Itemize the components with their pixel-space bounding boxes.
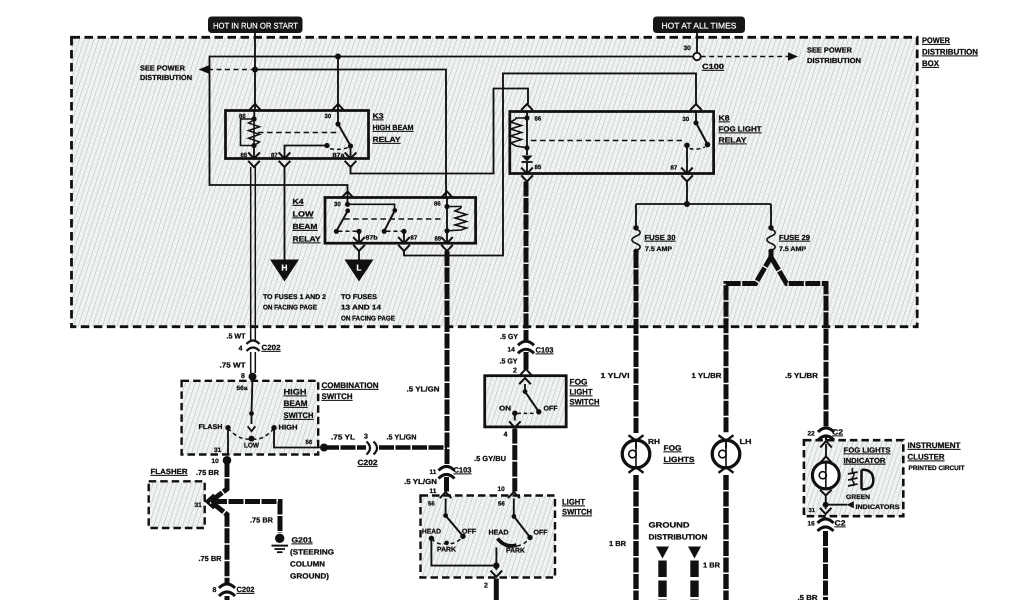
svg-text:85: 85 [435,236,442,243]
svg-text:3: 3 [364,434,368,441]
wire hot-in-run feed down to K3 86 [254,33,256,110]
K8 contact 87 [684,143,705,174]
svg-text:85: 85 [535,164,542,171]
svg-text:31: 31 [195,502,203,509]
svg-text:C2: C2 [835,519,846,528]
H arrow to fuses [263,260,326,312]
thick wire .5 BR below cluster [823,531,828,600]
K8 actuation dashed line [531,140,682,142]
svg-text:FLASHER: FLASHER [151,467,189,476]
svg-text:.75 YL: .75 YL [331,433,356,442]
fog indicator icon [848,468,873,489]
junction dot [252,67,258,73]
terminal 31 junction [823,502,829,508]
svg-text:56: 56 [306,439,313,446]
thick wire fuse 29 split left to LH fog light [726,253,771,433]
svg-text:K4: K4 [293,197,305,206]
svg-text:87: 87 [271,152,278,159]
svg-text:13 AND 14: 13 AND 14 [341,304,381,311]
ground stub right [688,547,701,600]
light switch left wiper [443,499,465,540]
light switch exit arrow [491,571,503,577]
svg-text:OFF: OFF [534,530,548,537]
hollow wire .5 WT from K3 85 [251,167,256,373]
svg-text:LH: LH [740,437,752,446]
connector C103 (YL/GN) [439,467,455,479]
svg-text:INDICATOR: INDICATOR [844,456,887,465]
combination switch box [182,381,319,455]
svg-text:INDICATORS: INDICATORS [856,504,901,511]
K3 actuation dashed line [258,132,340,134]
svg-text:POWER: POWER [922,36,950,45]
svg-text:C2: C2 [832,428,843,437]
light switch left HEAD contact [422,529,494,566]
combination switch title [322,381,379,401]
thick wire .75 YL to C202 [324,445,366,450]
wire K4 87 to K8 30 [404,73,696,255]
terminal 56a dot [249,373,257,381]
svg-text:2: 2 [484,583,488,590]
wire C2 to cluster box [825,438,827,442]
svg-text:56: 56 [498,501,505,508]
svg-text:FOG LIGHT: FOG LIGHT [719,125,762,134]
wiper arrow [248,426,256,431]
svg-text:.75 BR: .75 BR [199,554,223,563]
svg-text:C202: C202 [262,343,281,352]
svg-text:4: 4 [239,346,243,353]
svg-text:30: 30 [683,116,690,123]
svg-text:7.5 AMP: 7.5 AMP [645,246,673,253]
light switch left entry [440,492,452,498]
svg-text:OFF: OFF [462,529,476,536]
K4 contact 87 [382,229,407,243]
wire down to K3 30 [337,57,339,111]
thick wire 1 BR below RH lamp [633,475,638,600]
K3 name [373,112,414,145]
K3 pin 86 entry [249,104,261,110]
svg-text:LIGHT: LIGHT [570,388,593,397]
left dashed arc with PARK [431,537,463,554]
RH fog light lamp [622,435,650,473]
below lamp chevron [820,490,832,505]
svg-text:1 BR: 1 BR [703,561,721,570]
svg-text:LOW: LOW [244,443,260,450]
svg-text:K8: K8 [719,114,730,123]
K4 switch arms [336,202,397,232]
svg-text:GROUND: GROUND [649,521,691,530]
svg-text:30: 30 [334,201,341,208]
svg-text:87: 87 [411,234,418,241]
fuse 29 [767,225,810,254]
indicator entry arrow [820,441,832,463]
thick wire C103 to fog switch [524,352,529,370]
thick wire K4 85 .5 YL/GN down [445,251,450,466]
ground G201 [272,534,289,553]
indicator lamp [812,462,839,489]
connector C100 [693,53,700,60]
svg-text:30: 30 [684,45,692,52]
svg-text:PARK: PARK [437,547,456,554]
svg-text:86: 86 [535,116,542,123]
K3 switch arm [335,111,350,146]
svg-text:ON FACING PAGE: ON FACING PAGE [263,304,317,311]
light switch title [562,498,592,517]
thick wire .5 GY/BU [512,429,517,492]
svg-text:C103: C103 [454,466,472,475]
fuse bus junction [684,201,690,207]
svg-text:.5 GY/BU: .5 GY/BU [474,454,506,463]
svg-text:31: 31 [809,507,816,514]
svg-text:C100: C100 [702,62,724,71]
K3 contact 87 [285,143,330,159]
svg-text:BEAM: BEAM [293,222,318,231]
svg-text:.5 GY: .5 GY [500,357,518,366]
fog lights label [664,444,695,465]
svg-text:PARK: PARK [506,548,525,555]
svg-text:COMBINATION: COMBINATION [322,381,379,390]
svg-text:.75 BR: .75 BR [196,468,220,477]
wire branch to K4 86 [255,70,446,198]
svg-text:.75 WT: .75 WT [220,361,247,370]
dashed arrow see power distribution (right) [701,46,861,66]
connector C2 (top) [818,428,834,440]
svg-text:C202: C202 [358,458,378,467]
thick wire below light switch [494,579,499,600]
svg-text:11: 11 [430,488,437,495]
thick wire fuse 29 split right to instrument cluster [771,257,826,428]
relay K8 box [510,112,714,174]
K8 switch arm [693,111,710,147]
relay K4 box [325,198,476,244]
svg-text:FUSE 30: FUSE 30 [645,233,676,242]
right park wiper thick arc [498,539,517,546]
dashed selector arc [228,428,274,439]
svg-text:FUSE 29: FUSE 29 [779,233,810,242]
svg-text:(STEERING: (STEERING [290,548,334,557]
svg-text:GROUND): GROUND) [290,572,330,581]
svg-text:INSTRUMENT: INSTRUMENT [908,441,961,450]
wire K4 87b to L arrow [358,251,360,260]
thick wire down from terminal 10 to flasher junction [211,462,228,583]
thick wire fuse 30 to RH fog light (1 YL/VI) [634,253,639,433]
svg-text:1 YL/VI: 1 YL/VI [601,371,630,380]
svg-text:86: 86 [434,201,441,208]
svg-text:RELAY: RELAY [719,136,747,145]
light switch right wiper [512,499,533,541]
svg-text:CLUSTER: CLUSTER [908,453,945,462]
bus wire from C100 to left, down, to K4 30 [210,57,694,198]
K4 contact 87b [334,229,362,243]
LOW contact [249,436,255,442]
svg-text:FOG LIGHTS: FOG LIGHTS [844,446,891,455]
K4 actuation dashed line [344,218,441,220]
right dashed arc [517,538,531,546]
svg-text:PRINTED CIRCUIT: PRINTED CIRCUIT [909,465,965,472]
svg-text:HEAD: HEAD [489,530,509,537]
K4 pin 86 entry [441,192,453,198]
light switch output junction [493,548,499,571]
svg-text:.5 WT: .5 WT [227,332,247,341]
svg-text:RELAY: RELAY [293,235,321,244]
connector C202 horizontal [367,442,378,455]
K3 coil [241,116,260,158]
svg-text:HIGH: HIGH [284,388,307,397]
FLASH contact [199,424,231,454]
flasher terminal 31 arrow [206,495,214,509]
svg-text:.5 YL/GN: .5 YL/GN [404,477,437,486]
K4 name [293,197,321,244]
fog lights indicator label [844,446,891,465]
svg-text:56: 56 [428,501,435,508]
svg-text:7.5 AMP: 7.5 AMP [779,246,807,253]
K8 name [719,114,762,145]
svg-text:87b: 87b [366,235,378,242]
svg-text:SWITCH: SWITCH [562,508,592,517]
K3 pin 30 entry [332,104,344,110]
ground distribution label [649,521,708,542]
svg-text:.5 GY: .5 GY [500,332,518,341]
svg-text:FOG: FOG [570,378,588,387]
K3 contact 87a [330,143,353,158]
svg-text:.5 YL/GN: .5 YL/GN [407,385,440,394]
switch wiper wire [249,377,254,424]
svg-text:TO FUSES 1 AND 2: TO FUSES 1 AND 2 [263,294,326,301]
svg-text:HOT IN RUN OR START: HOT IN RUN OR START [213,21,298,30]
HIGH contact [271,425,320,448]
fog switch exit arrow [509,421,521,427]
svg-text:FOG: FOG [664,444,682,453]
svg-text:RELAY: RELAY [373,135,401,144]
svg-text:FLASH: FLASH [199,424,223,431]
junction dot branch to K3 30 [335,54,341,60]
svg-text:31: 31 [214,447,222,454]
connector C202 [247,341,260,352]
svg-text:8: 8 [241,373,245,380]
svg-text:LIGHTS: LIGHTS [664,455,695,464]
wire stub below C202 [225,596,230,600]
wire K8 87 down to fuse bus [686,182,688,205]
flasher box [149,481,205,528]
svg-text:ON FACING PAGE: ON FACING PAGE [341,316,395,323]
fuse 30 [632,225,676,254]
K8 coil diode [522,148,533,174]
svg-text:16: 16 [808,521,816,528]
svg-text:1 BR: 1 BR [609,539,627,548]
svg-text:SWITCH: SWITCH [284,411,314,420]
thick wire C103 to light switch [444,477,449,492]
K8 coil [511,115,530,150]
label HOT AT ALL TIMES [653,17,745,34]
instrument cluster titles [908,441,965,472]
svg-text:COLUMN: COLUMN [290,560,325,569]
svg-text:DISTRIBUTION: DISTRIBUTION [140,73,192,82]
power distribution box title [922,36,978,68]
svg-text:87: 87 [671,165,678,172]
svg-text:HIGH BEAM: HIGH BEAM [373,123,414,132]
G201 label [290,536,334,581]
svg-text:SWITCH: SWITCH [322,392,353,401]
svg-text:56a: 56a [237,385,249,392]
instrument cluster box [804,440,903,516]
svg-text:10: 10 [212,458,220,465]
power distribution box [72,37,918,326]
svg-text:ON: ON [499,406,511,413]
svg-text:30: 30 [325,113,332,120]
svg-text:C103: C103 [536,346,554,355]
light switch right entry [508,492,520,498]
svg-text:22: 22 [808,431,816,438]
svg-text:HIGH: HIGH [279,425,298,432]
indicator exit arrow [820,508,832,515]
svg-text:.5 YL/GN: .5 YL/GN [387,433,417,442]
green indicators pointer [826,494,901,511]
svg-text:SEE POWER: SEE POWER [807,46,853,55]
high beam switch title [284,388,314,421]
wire K3 87a to K8 86 [351,89,529,174]
svg-text:C202: C202 [237,585,255,594]
fog switch ON contact [499,406,536,421]
ground stub left [656,547,669,600]
svg-text:OFF: OFF [544,406,558,413]
thick wire branch to G201 [212,502,280,534]
svg-text:HEAD: HEAD [422,529,441,536]
svg-text:GREEN: GREEN [846,494,870,501]
svg-text:1 YL/BR: 1 YL/BR [692,371,723,380]
fog light switch title [570,378,600,407]
svg-text:K3: K3 [373,112,384,121]
wire hot-at-all-times down to C100 [696,33,698,53]
svg-text:11: 11 [430,469,437,476]
K8 pin 30 entry [690,104,702,110]
svg-text:DISTRIBUTION: DISTRIBUTION [807,56,861,65]
svg-text:.5 BR: .5 BR [798,593,819,600]
svg-text:H: H [281,263,287,273]
svg-text:L: L [356,263,361,273]
svg-text:G201: G201 [292,536,313,545]
svg-text:RH: RH [648,437,660,446]
fuse bus wire [636,204,771,226]
fog switch wiper [519,378,541,414]
relay K3 box [226,111,369,159]
svg-text:10: 10 [498,486,506,493]
svg-text:2: 2 [513,368,517,375]
fog light switch box [485,376,567,427]
L arrow to fuses [341,260,395,323]
svg-text:TO FUSES: TO FUSES [341,294,377,301]
connector C103 (GY) [518,341,534,353]
svg-text:LIGHT: LIGHT [562,498,585,507]
svg-text:SEE POWER: SEE POWER [140,64,186,73]
svg-text:.75 BR: .75 BR [250,516,274,525]
svg-text:LOW: LOW [293,210,315,219]
K4 coil [444,204,466,243]
thick wire .5 YL/GN to junction [379,445,447,450]
svg-text:8: 8 [213,587,217,594]
svg-text:DISTRIBUTION: DISTRIBUTION [922,48,978,57]
K8 pin 86 entry [521,104,533,110]
svg-text:SWITCH: SWITCH [570,398,600,407]
svg-text:85: 85 [241,152,248,159]
thick wire K8 85 .5 GY down [524,182,529,342]
svg-text:BEAM: BEAM [284,399,308,408]
K4 pin 30 entry [342,192,354,198]
thick wire 1 BR below LH lamp [723,475,728,600]
svg-text:4: 4 [504,432,508,439]
connector C202 (bottom) [219,584,235,596]
light switch box [421,496,556,578]
svg-text:14: 14 [508,347,516,354]
svg-text:87a: 87a [333,152,346,159]
svg-text:BOX: BOX [922,59,940,68]
label HOT IN RUN OR START [208,17,303,34]
connector C2 (bottom) [818,519,834,531]
svg-text:HOT AT ALL TIMES: HOT AT ALL TIMES [662,21,738,30]
svg-text:.5 YL/BR: .5 YL/BR [785,371,819,380]
svg-text:DISTRIBUTION: DISTRIBUTION [649,533,708,542]
wire K3 87 to H arrow [284,167,286,260]
dashed arrow see power distribution (left) [140,64,254,83]
entry chevron fog light switch [520,369,532,375]
LH fog light lamp [712,435,740,473]
